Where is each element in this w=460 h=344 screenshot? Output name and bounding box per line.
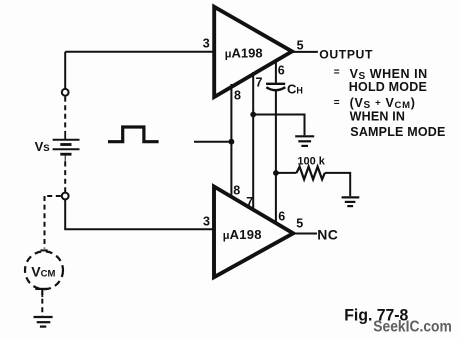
svg-text:=: = bbox=[334, 67, 340, 78]
svg-text:6: 6 bbox=[278, 63, 285, 77]
svg-text:7: 7 bbox=[256, 75, 263, 89]
svg-text:100 k: 100 k bbox=[297, 156, 325, 168]
svg-text:μA198: μA198 bbox=[225, 45, 263, 60]
svg-text:5: 5 bbox=[296, 216, 303, 230]
svg-text:OUTPUT: OUTPUT bbox=[319, 47, 373, 61]
svg-text:8: 8 bbox=[233, 183, 240, 197]
svg-text:NC: NC bbox=[317, 226, 338, 242]
svg-text:μA198: μA198 bbox=[223, 227, 262, 242]
svg-text:5: 5 bbox=[297, 39, 304, 53]
svg-text:=: = bbox=[334, 98, 340, 109]
svg-text:3: 3 bbox=[203, 214, 210, 228]
svg-text:WHEN IN: WHEN IN bbox=[350, 109, 406, 123]
svg-text:7: 7 bbox=[246, 195, 253, 209]
svg-text:HOLD MODE: HOLD MODE bbox=[349, 80, 427, 94]
svg-text:SAMPLE MODE: SAMPLE MODE bbox=[350, 125, 445, 139]
svg-text:3: 3 bbox=[203, 36, 210, 50]
svg-text:SeekIC.com: SeekIC.com bbox=[373, 319, 452, 336]
svg-text:6: 6 bbox=[278, 209, 285, 223]
svg-text:8: 8 bbox=[234, 88, 241, 102]
